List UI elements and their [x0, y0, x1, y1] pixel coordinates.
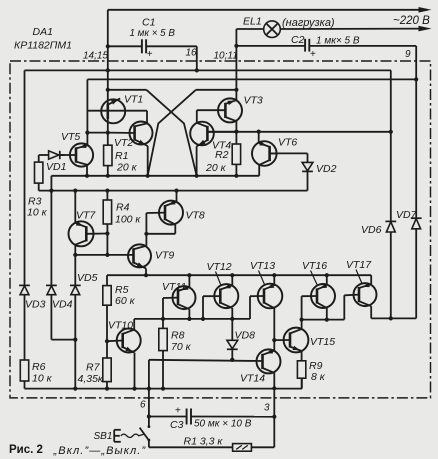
label R3 [28, 195, 42, 207]
pin 9 label [405, 49, 411, 60]
label R1 [115, 150, 128, 162]
wire VD8 bottom [230, 350, 234, 362]
diode VD3 [19, 285, 30, 294]
svg-text:DA1: DA1 [33, 26, 53, 38]
label VT2 [114, 137, 133, 149]
IC DA1 boundary (dash-dot box) [10, 61, 431, 398]
wire VT16-VT17 loop [302, 295, 345, 319]
wire VT13 collector down [272, 308, 276, 342]
wire VT9 emitter down [145, 268, 147, 275]
label (нагрузка) [282, 17, 335, 29]
pin 10;11 label [214, 51, 238, 62]
label EL1 [243, 16, 262, 28]
svg-text:C1: C1 [142, 17, 155, 29]
resistor R2 20к [232, 144, 240, 164]
switch SB1 [114, 425, 150, 442]
label Рис. 2 [9, 444, 43, 456]
label VT14 [240, 372, 265, 384]
label VD2 [316, 163, 337, 175]
svg-text:20 к: 20 к [205, 162, 227, 174]
wire VT14 emitter down [272, 373, 276, 391]
capacitor C1 1мк×5В [108, 39, 197, 60]
wire VD6-VD7 bottom link [371, 316, 416, 320]
wire cross diagonal A [146, 90, 196, 176]
wire VD6 lower [390, 232, 392, 318]
label VD5 [77, 272, 98, 284]
svg-text:VT3: VT3 [244, 95, 263, 107]
label VT12 [207, 261, 232, 286]
wire VT10 emitter down [132, 353, 136, 391]
svg-text:R2: R2 [215, 149, 229, 161]
wire VD1 leads [39, 154, 65, 156]
wire pin 16 lead [195, 46, 199, 72]
label R4 [116, 202, 130, 214]
label R1 value [116, 162, 138, 174]
wire VT16 emitter up [326, 275, 328, 285]
wire VT1 collector to node [106, 119, 110, 146]
label R9 value [311, 371, 326, 383]
wire VD2 leads [307, 153, 309, 190]
svg-text:VT15: VT15 [310, 336, 335, 348]
diode VD2 [302, 162, 313, 171]
wire VT11 base riser [162, 298, 164, 328]
transistor VT8 [146, 200, 183, 225]
transistor VT10 [107, 329, 141, 353]
svg-text:VT7: VT7 [76, 209, 96, 221]
wire R8 bottom [161, 351, 165, 391]
svg-text:VT10: VT10 [108, 319, 133, 331]
transistor VT5 [61, 143, 94, 166]
svg-text:R6: R6 [32, 361, 46, 373]
label C1 [142, 17, 155, 29]
svg-text:~220 В: ~220 В [393, 15, 430, 27]
label R6 value [32, 373, 53, 385]
svg-text:100 к: 100 к [115, 214, 141, 226]
wire VT3 collector [234, 121, 238, 144]
svg-text:20 к: 20 к [116, 162, 138, 174]
wire bottom rail [25, 378, 302, 391]
wire lower rail (y275) [107, 273, 371, 277]
transistor VT13 [250, 284, 282, 309]
wire mid rail (y191) [39, 189, 308, 193]
wire VT4 collector from VT3 base [196, 110, 198, 123]
label R5 value [115, 295, 136, 307]
svg-text:3: 3 [264, 403, 270, 414]
svg-text:VD3: VD3 [25, 298, 46, 310]
wire VT15 emitter to R9 [301, 351, 303, 361]
label R8 value [171, 341, 192, 353]
capacitor C3 50мк×10В [149, 406, 274, 425]
wire ~220V lower line (load return) [281, 26, 432, 32]
label VT9 [155, 250, 174, 262]
svg-text:C2: C2 [291, 34, 305, 46]
label SB1 [94, 431, 113, 442]
svg-text:R7: R7 [86, 361, 101, 373]
wire R9 bottom [301, 378, 303, 388]
svg-text:VD4: VD4 [52, 298, 73, 310]
wire VT8 base-collector loop [144, 213, 175, 236]
svg-text:10;11: 10;11 [214, 51, 238, 62]
wire pin 9 lead [414, 46, 418, 218]
svg-text:VT6: VT6 [278, 136, 297, 148]
svg-text:14;15: 14;15 [83, 50, 108, 61]
resistor R1 20к [104, 145, 112, 165]
label C3 value [194, 419, 252, 430]
label R9 [309, 360, 323, 372]
wire R5 to R7 [105, 305, 109, 358]
label VT4 [212, 140, 231, 152]
wire VT15 collector up [301, 320, 303, 329]
svg-text:VD8: VD8 [235, 330, 256, 342]
wire top rail A [25, 69, 392, 71]
wire base bus (y319) [134, 317, 250, 321]
svg-text:+: + [175, 406, 181, 417]
label R7 value [78, 373, 104, 385]
label VT15 [310, 336, 335, 348]
wire ~220V upper line [108, 7, 432, 13]
label VD7 [396, 209, 418, 221]
wire node y131 line [207, 130, 393, 134]
transistor VT9 [128, 244, 151, 268]
wire VT9 base line [73, 253, 133, 257]
diode VD8 [227, 340, 238, 349]
label Вкл-Выкл [53, 445, 147, 457]
transistor VT11 [163, 285, 196, 309]
wire VT6 collector down [258, 165, 260, 176]
svg-text:EL1: EL1 [243, 16, 262, 28]
svg-text:50 мк × 10 В: 50 мк × 10 В [194, 419, 252, 430]
svg-text:VT5: VT5 [61, 131, 80, 143]
diode VD1 [49, 151, 60, 159]
svg-text:VT1: VT1 [124, 93, 143, 105]
pin 3 label [264, 403, 270, 414]
label VD3 [25, 298, 46, 310]
wire R3 top [38, 155, 40, 162]
svg-text:16: 16 [186, 48, 198, 59]
wire VT16 collector down [325, 308, 329, 322]
transistor VT2 [108, 111, 153, 146]
wire VD6 column [390, 70, 392, 221]
svg-text:VD5: VD5 [77, 272, 98, 284]
label VT1 [124, 93, 143, 105]
label R5 [115, 284, 129, 296]
label R2 value [205, 162, 227, 174]
svg-text:VT17: VT17 [346, 259, 372, 271]
label C3 [170, 419, 184, 431]
capacitor C2 1мк×5В [236, 39, 416, 60]
wire VD3 to R6 [24, 295, 26, 360]
wire VT13 base riser [249, 296, 251, 319]
svg-text:VT16: VT16 [302, 260, 327, 272]
transistor VT3 [197, 98, 242, 122]
wire VD5 column lower [73, 295, 77, 391]
label VT5 [61, 131, 80, 143]
label R8 [171, 330, 185, 342]
svg-text:10 к: 10 к [27, 207, 48, 219]
svg-text:8 к: 8 к [311, 371, 326, 383]
wire VD4 bottom elbow [51, 295, 77, 342]
transistor VT1 [87, 98, 147, 123]
wire pin 10;11 lead [234, 29, 238, 100]
label VT16 [302, 260, 327, 285]
label VT3 [244, 95, 263, 107]
label C2 [291, 34, 305, 46]
wire cross diagonal B [148, 90, 196, 176]
svg-text:R3: R3 [28, 195, 42, 207]
wire VT6 base to VD2 [270, 152, 308, 154]
wire VT11 collector down [188, 309, 190, 319]
label R1 3,3 к [184, 436, 224, 448]
label R4 value [115, 214, 141, 226]
wire VD5 column upper [74, 255, 76, 285]
resistor R4 100к [103, 200, 111, 224]
wire R1 to pin 3 [251, 446, 274, 448]
svg-text:+: + [310, 49, 316, 60]
wire R4 bottom [105, 224, 109, 257]
wire VT4 emitter [196, 146, 198, 176]
wire top rail B [87, 78, 416, 80]
wire VT9 collector up [145, 234, 147, 246]
label VT7 [76, 209, 96, 221]
wire VT5-emitter node link [85, 131, 108, 135]
label R6 [32, 361, 46, 373]
wire node 14;15 stub [108, 89, 147, 91]
label VT10 [108, 319, 133, 331]
label C1 value [130, 28, 176, 39]
svg-text:(нагрузка): (нагрузка) [282, 17, 335, 29]
resistor R5 60к [103, 286, 111, 306]
resistor R9 8к [297, 361, 305, 378]
svg-text:9: 9 [405, 49, 411, 60]
diode VD6 [385, 221, 396, 232]
svg-text:VD1: VD1 [46, 161, 66, 173]
label VT6 [278, 136, 297, 148]
svg-text:60 к: 60 к [115, 295, 136, 307]
svg-text:+: + [147, 49, 153, 60]
wire R1 bottom [107, 166, 109, 176]
wire VT12 base riser [202, 296, 204, 319]
pin 14;15 label [83, 50, 108, 61]
svg-text:SB1: SB1 [94, 431, 113, 442]
transistor VT12 [203, 284, 238, 308]
wire pin 3 lead [272, 388, 276, 447]
resistor R8 70к [159, 328, 167, 350]
transistor VT6 [252, 141, 277, 166]
diode VD5 [70, 285, 81, 294]
wire VT11 emitter up [188, 275, 190, 287]
label VT11 [162, 281, 186, 293]
wire VT7 emitter up [74, 191, 76, 223]
label VT8 [186, 210, 205, 222]
svg-text:VT12: VT12 [207, 261, 232, 273]
resistor R3 10к [35, 162, 43, 183]
wire VT10 collector up [133, 319, 135, 330]
svg-text:70 к: 70 к [171, 341, 192, 353]
svg-text:R1: R1 [115, 150, 128, 162]
label VT17 [346, 259, 372, 284]
transistor VT4 [190, 122, 236, 147]
wire VT16 base riser [300, 296, 304, 322]
svg-text:10 к: 10 к [32, 373, 53, 385]
wire switch to R1 [149, 440, 233, 447]
label VD8 [235, 330, 256, 342]
svg-text:VD6: VD6 [361, 224, 382, 236]
svg-text:R8: R8 [171, 330, 185, 342]
wire VT17 collector down [370, 306, 372, 318]
wire rail into R5 [106, 275, 108, 285]
label VD4 [52, 298, 73, 310]
transistor VT16 [302, 284, 335, 309]
transistor VT14 [257, 349, 281, 373]
wire VT13 emitter up [273, 275, 275, 285]
label VT13 [250, 260, 275, 285]
svg-text:VD2: VD2 [316, 163, 337, 175]
label R7 [86, 361, 101, 373]
wire VT12 collector to VD8 [231, 308, 233, 340]
resistor R1 3,3к (external) [233, 444, 252, 452]
diode VD4 [46, 285, 57, 294]
wire VT6 emitter up [257, 130, 261, 143]
pin 6 label [140, 400, 146, 411]
svg-text:VT13: VT13 [250, 260, 275, 272]
label VD1 [46, 161, 66, 173]
wire mid rail (y176) [51, 174, 259, 178]
label C2 value [316, 36, 360, 47]
label КР1182ПМ1 [14, 40, 72, 52]
wire pin 6 lead [147, 360, 151, 426]
wire VT8 emitter up [176, 191, 178, 202]
wire left column [24, 70, 26, 285]
svg-text:VT14: VT14 [240, 372, 265, 384]
wire R4 top [106, 191, 108, 201]
wire VT12 emitter up [231, 275, 233, 285]
svg-text:R4: R4 [116, 202, 130, 214]
svg-text:1 мк × 5 В: 1 мк × 5 В [130, 28, 176, 39]
label R3 value [27, 207, 48, 219]
pin 16 label [186, 48, 198, 59]
wire R3 bottom [38, 183, 40, 191]
wire VT17 emitter from rail [370, 275, 372, 284]
diode VD7 [411, 218, 422, 229]
transistor VT17 [344, 283, 376, 307]
svg-text:КР1182ПМ1: КР1182ПМ1 [14, 40, 72, 52]
wire R7 bottom [105, 382, 109, 391]
svg-text:4,35к: 4,35к [78, 373, 104, 385]
label DA1 [33, 26, 53, 38]
svg-text:R1 3,3 к: R1 3,3 к [184, 436, 224, 448]
wire VT5 emitter chain [86, 79, 88, 145]
label ~220 В [393, 15, 430, 27]
wire VD4 column [50, 176, 52, 286]
label R2 [215, 149, 229, 161]
svg-text:VT8: VT8 [186, 210, 205, 222]
svg-text:C3: C3 [170, 419, 184, 431]
resistor R6 10к [20, 360, 28, 381]
wire node 10;11 stub [196, 89, 237, 91]
svg-text:Рис. 2: Рис. 2 [9, 444, 43, 456]
svg-text:6: 6 [140, 400, 146, 411]
wire VT14 collector from node [273, 340, 275, 351]
transistor VT15 [274, 328, 308, 353]
label VD6 [361, 224, 382, 236]
svg-text:1 мк× 5 В: 1 мк× 5 В [316, 36, 360, 47]
wire VT2 emitter [147, 146, 149, 176]
transistor VT7 [69, 221, 108, 246]
svg-text:VT9: VT9 [155, 250, 174, 262]
wire VT14 base bus (y360) [149, 358, 263, 362]
wire VD7 lower [415, 229, 417, 318]
lamp EL1 (нагрузка) [236, 21, 280, 38]
svg-text:VT2: VT2 [114, 137, 133, 149]
svg-text:VD7: VD7 [396, 209, 418, 221]
wire VT7 collector down [74, 245, 76, 255]
wire pin 14;15 lead [106, 10, 110, 105]
wire R2 bottom [235, 164, 237, 175]
svg-text:„Вкл.”—„Выкл.”: „Вкл.”—„Выкл.” [53, 445, 147, 457]
resistor R7 4,35к [103, 358, 111, 382]
wire R6 bottom [24, 381, 26, 389]
wire VT5 collector [86, 165, 88, 176]
svg-text:VT11: VT11 [162, 281, 186, 293]
